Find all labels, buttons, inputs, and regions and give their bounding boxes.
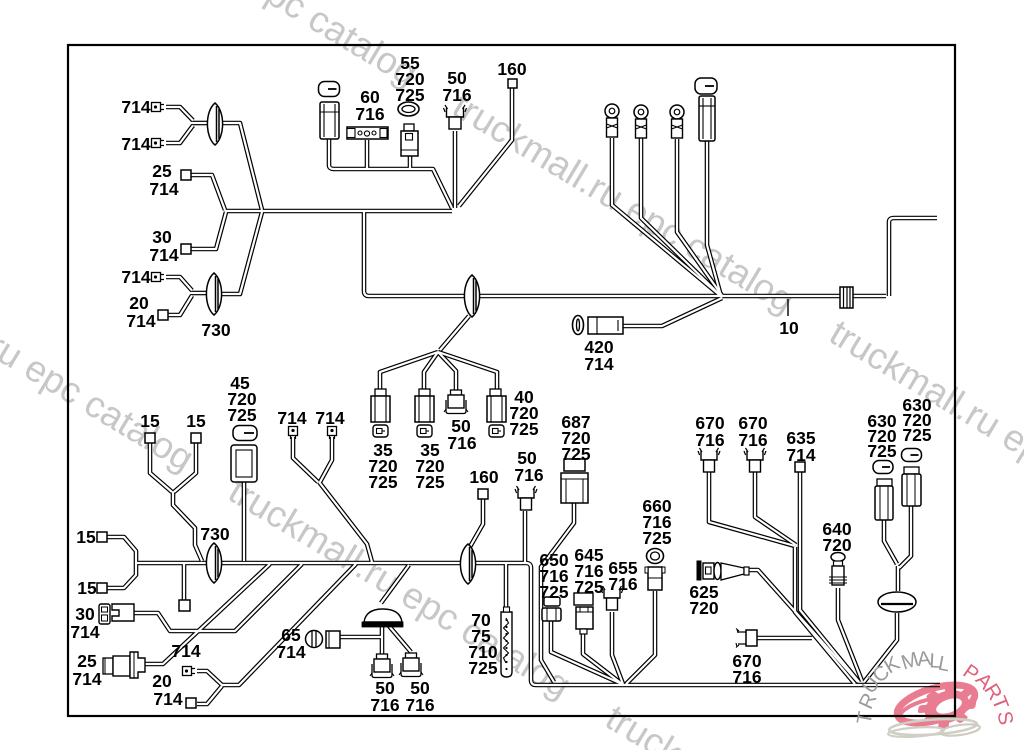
svg-text:725: 725 bbox=[574, 577, 603, 597]
svg-text:714: 714 bbox=[121, 134, 150, 154]
svg-text:15: 15 bbox=[76, 527, 96, 547]
svg-text:716: 716 bbox=[738, 430, 767, 450]
svg-text:714: 714 bbox=[126, 311, 155, 331]
svg-text:714: 714 bbox=[276, 642, 305, 662]
svg-text:720: 720 bbox=[689, 598, 718, 618]
svg-text:725: 725 bbox=[368, 472, 397, 492]
svg-text:714: 714 bbox=[171, 641, 200, 661]
svg-text:725: 725 bbox=[395, 85, 424, 105]
svg-text:160: 160 bbox=[497, 59, 526, 79]
svg-text:725: 725 bbox=[561, 444, 590, 464]
svg-text:714: 714 bbox=[72, 669, 101, 689]
svg-text:716: 716 bbox=[732, 667, 761, 687]
svg-text:725: 725 bbox=[902, 425, 931, 445]
svg-text:716: 716 bbox=[442, 85, 471, 105]
svg-text:15: 15 bbox=[77, 578, 97, 598]
svg-text:30: 30 bbox=[152, 227, 172, 247]
svg-text:716: 716 bbox=[608, 574, 637, 594]
svg-text:10: 10 bbox=[779, 318, 799, 338]
svg-text:714: 714 bbox=[584, 354, 613, 374]
svg-text:714: 714 bbox=[277, 408, 306, 428]
svg-text:30: 30 bbox=[75, 604, 95, 624]
svg-text:725: 725 bbox=[539, 582, 568, 602]
svg-text:725: 725 bbox=[509, 419, 538, 439]
svg-text:25: 25 bbox=[152, 161, 172, 181]
svg-text:20: 20 bbox=[152, 671, 172, 691]
svg-text:20: 20 bbox=[129, 293, 149, 313]
svg-text:730: 730 bbox=[200, 524, 229, 544]
svg-text:716: 716 bbox=[695, 430, 724, 450]
svg-text:716: 716 bbox=[405, 695, 434, 715]
svg-text:714: 714 bbox=[315, 408, 344, 428]
svg-text:725: 725 bbox=[468, 658, 497, 678]
svg-text:160: 160 bbox=[469, 467, 498, 487]
svg-text:725: 725 bbox=[867, 441, 896, 461]
svg-text:730: 730 bbox=[201, 320, 230, 340]
svg-text:725: 725 bbox=[227, 405, 256, 425]
svg-text:714: 714 bbox=[121, 267, 150, 287]
svg-text:25: 25 bbox=[77, 651, 97, 671]
svg-text:714: 714 bbox=[121, 97, 150, 117]
svg-text:714: 714 bbox=[70, 622, 99, 642]
svg-text:714: 714 bbox=[149, 245, 178, 265]
svg-text:15: 15 bbox=[140, 411, 160, 431]
svg-text:716: 716 bbox=[514, 465, 543, 485]
svg-text:716: 716 bbox=[447, 433, 476, 453]
svg-text:725: 725 bbox=[415, 472, 444, 492]
svg-text:15: 15 bbox=[186, 411, 206, 431]
svg-text:714: 714 bbox=[153, 689, 182, 709]
svg-text:716: 716 bbox=[370, 695, 399, 715]
svg-text:714: 714 bbox=[786, 445, 815, 465]
svg-text:716: 716 bbox=[355, 104, 384, 124]
svg-text:720: 720 bbox=[822, 535, 851, 555]
svg-text:714: 714 bbox=[149, 179, 178, 199]
svg-text:725: 725 bbox=[642, 528, 671, 548]
